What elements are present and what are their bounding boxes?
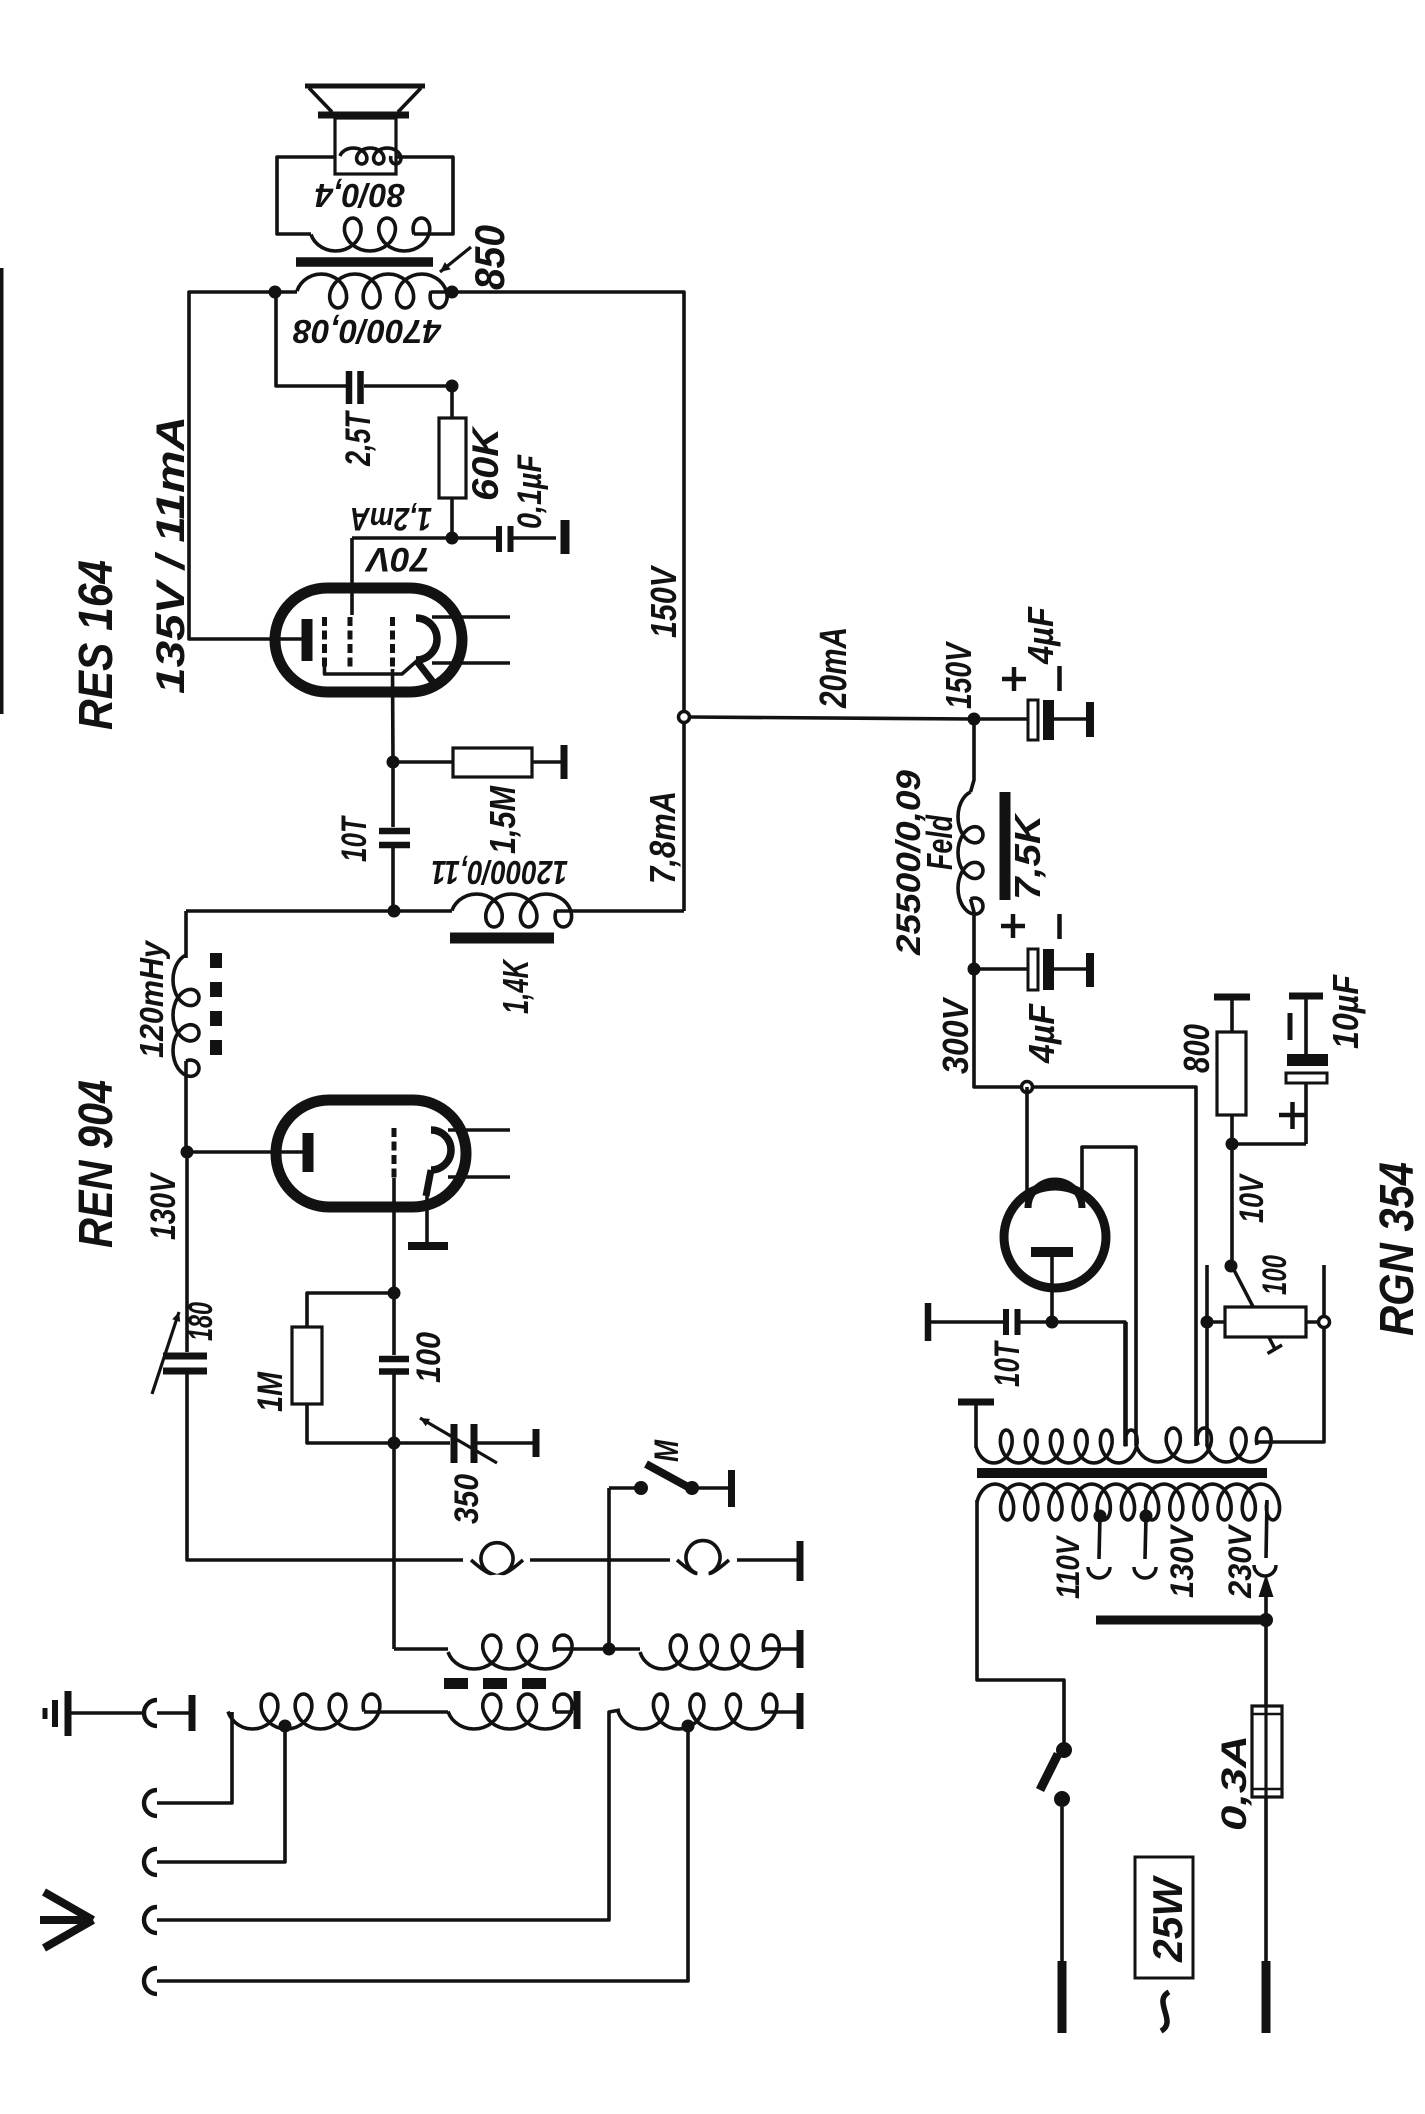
RGN 354 anode	[1031, 1247, 1073, 1257]
svg-text:25W: 25W	[1144, 1875, 1191, 1963]
wire winding3 right	[1257, 1265, 1324, 1442]
wire filament left	[1025, 1087, 1029, 1206]
label 150V b	[938, 641, 979, 709]
coil row2 a	[448, 1635, 572, 1669]
wire 10T to node	[391, 845, 395, 911]
speaker voice coil	[340, 148, 401, 164]
svg-text:350: 350	[448, 1474, 486, 1524]
label 2,5T	[339, 410, 378, 467]
label mains tilde	[1161, 1992, 1169, 2031]
svg-text:M: M	[648, 1439, 686, 1462]
node coupling	[388, 905, 401, 918]
svg-text:130V: 130V	[1164, 1523, 1200, 1598]
plug pin right	[1262, 1961, 1271, 2033]
wire row2 left	[394, 1647, 448, 1651]
loudspeaker	[305, 86, 425, 174]
svg-text:4µF: 4µF	[1020, 606, 1061, 665]
capacitor C 4uF a	[974, 700, 1090, 740]
REN 904 cathode stub	[408, 1196, 448, 1246]
wire coil row3 mid	[364, 1710, 448, 1714]
label 4uF b	[1021, 1003, 1062, 1064]
wire 100 bottom	[392, 1372, 396, 1444]
selector arrow 230V	[1259, 1574, 1274, 1620]
svg-text:60K: 60K	[465, 426, 506, 501]
capacitor C 0,1uF	[499, 526, 511, 552]
wire choke to REN anode	[184, 1061, 188, 1152]
wire anode REN row	[186, 909, 452, 913]
svg-text:0,1µF: 0,1µF	[511, 454, 549, 529]
node rectifier filament	[1022, 1082, 1033, 1093]
stub switch M	[728, 1470, 735, 1507]
transformer winding 2	[1136, 1428, 1211, 1462]
wire row3b to stub	[764, 1710, 797, 1714]
transformer winding 3	[1207, 1428, 1271, 1462]
svg-text:130V: 130V	[144, 1172, 183, 1240]
RES 164 filament	[416, 618, 437, 682]
node REN grid	[388, 1287, 401, 1300]
wire field to 300V	[971, 899, 975, 969]
wire row2 to stub	[764, 1647, 797, 1651]
resistor R 60K	[439, 418, 466, 498]
label 110V	[1050, 1535, 1086, 1599]
label plus b	[1001, 914, 1025, 938]
label 1,4K	[495, 958, 536, 1014]
node REN anode	[181, 1146, 194, 1159]
svg-text:1,2mA: 1,2mA	[350, 501, 432, 537]
coil row3 b	[618, 1694, 777, 1729]
node anode	[1046, 1316, 1059, 1329]
capacitor C 10T b	[1006, 1309, 1052, 1335]
tube REN 904 envelope	[276, 1100, 466, 1207]
wire 300V run	[974, 969, 1196, 1446]
wire control grid RES	[391, 669, 395, 762]
capacitor C 10T	[379, 831, 410, 845]
node RES grid	[387, 756, 400, 769]
wire anode to winding	[1052, 1322, 1125, 1446]
label 80/0,4	[315, 177, 405, 214]
wire to field coil	[971, 719, 975, 792]
capacitor C 4uF b	[974, 949, 1090, 990]
wire grid rail down	[392, 1443, 396, 1649]
label 10T	[335, 815, 374, 862]
selector bar	[1096, 1616, 1266, 1625]
switch M	[609, 1464, 729, 1649]
svg-text:300V: 300V	[935, 996, 976, 1074]
svg-text:100: 100	[1256, 1255, 1294, 1295]
REN 904 anode	[303, 1133, 314, 1172]
stub 350	[533, 1429, 540, 1457]
svg-text:RGN 354: RGN 354	[1371, 1162, 1424, 1336]
antenna coil tap node	[279, 1720, 292, 1733]
REN 904 cathode	[426, 1130, 451, 1196]
label 1,2mA	[350, 501, 432, 537]
tube RGN 354 envelope	[1004, 1186, 1106, 1288]
wire fuse to plug	[1264, 1797, 1268, 1961]
jack 3	[144, 1849, 157, 1875]
node screen grid	[446, 532, 459, 545]
svg-text:70V: 70V	[364, 540, 430, 578]
label 60K	[465, 426, 506, 501]
node primary left	[269, 286, 282, 299]
REN 904 grid	[392, 1128, 397, 1178]
label 230V	[1222, 1523, 1258, 1599]
resistor R 1,5M	[393, 748, 561, 777]
wire 180 to bottom row	[187, 1371, 463, 1560]
label minus 10uF	[1288, 1013, 1293, 1040]
label 100 b	[1256, 1255, 1294, 1295]
stub row3 a	[574, 1691, 581, 1729]
choke core dashes	[210, 953, 222, 1059]
label 130V b	[1164, 1523, 1200, 1598]
label REN 904	[70, 1080, 123, 1248]
wire secondary loop	[277, 157, 453, 234]
svg-text:2,5T: 2,5T	[339, 410, 378, 467]
label 7,5K	[1007, 812, 1048, 900]
svg-text:10T: 10T	[335, 815, 374, 862]
label 4uF a	[1020, 606, 1061, 665]
coil row2 b	[640, 1635, 779, 1669]
tube RES 164 envelope	[275, 588, 462, 692]
output transformer core	[296, 257, 433, 267]
hook 230V	[1254, 1565, 1276, 1576]
wire jack3 to tap	[157, 1726, 285, 1862]
stub row3 b	[797, 1693, 804, 1729]
wire 60K bottom	[450, 498, 454, 538]
svg-text:135V / 11mA: 135V / 11mA	[149, 416, 193, 694]
transformer core 1,4K	[450, 933, 554, 944]
label 7,8mA	[642, 791, 683, 884]
antenna symbol	[40, 1892, 93, 1948]
wire primary right	[1266, 1500, 1267, 1558]
node rheostat left	[1201, 1316, 1214, 1329]
label 135V / 11mA	[149, 416, 193, 694]
svg-text:Feld: Feld	[919, 814, 960, 870]
node 300V	[968, 963, 981, 976]
trimmer capacitor 350	[454, 1424, 474, 1463]
label 12000/0,11	[431, 854, 568, 891]
label 1M	[251, 1371, 290, 1412]
svg-text:120mHy: 120mHy	[133, 939, 170, 1058]
label plus 10uF	[1279, 1102, 1306, 1129]
wire earth to jack	[71, 1711, 143, 1715]
field coil core 7,5K	[1000, 792, 1011, 900]
field coil Feld 25500/0,09	[958, 792, 983, 914]
stub jack1	[189, 1695, 196, 1731]
transformer primary 12000/0,11	[452, 894, 572, 927]
wire rail to choke	[184, 911, 188, 958]
wire winding3 left	[1205, 1265, 1209, 1446]
svg-text:800: 800	[1176, 1024, 1217, 1073]
label 25W	[1144, 1875, 1191, 1963]
wire 10T b stub	[928, 1320, 1003, 1324]
hook 110V	[1088, 1567, 1110, 1578]
fuse 0,3A	[1252, 1706, 1282, 1797]
label 180	[182, 1302, 220, 1341]
label RGN 354	[1371, 1162, 1424, 1336]
svg-text:850: 850	[466, 225, 513, 290]
wire 60K top	[450, 386, 454, 418]
wire row3 to stub	[555, 1710, 573, 1714]
wire switch to plug	[1060, 1807, 1064, 1961]
label 130V	[144, 1172, 183, 1240]
node 150V junction	[679, 712, 690, 723]
stub 10uF	[1289, 993, 1323, 1000]
svg-text:4µF: 4µF	[1021, 1003, 1062, 1064]
wire 10uF to node	[1232, 1142, 1306, 1146]
wire 135V rail	[189, 292, 307, 639]
capacitor C 2,5T	[349, 371, 361, 404]
label 350	[448, 1474, 486, 1524]
wire rail to 180	[185, 1152, 189, 1352]
resistor R 1M	[292, 1293, 394, 1443]
label 800	[1176, 1024, 1217, 1073]
plug pin left	[1058, 1961, 1067, 2033]
antenna coil	[228, 1694, 380, 1729]
RGN 354 filament	[1028, 1181, 1082, 1208]
svg-text:150V: 150V	[938, 641, 979, 709]
wire anode down	[1050, 1252, 1054, 1322]
RES 164 anode	[302, 619, 313, 661]
jack earth	[144, 1700, 157, 1726]
transformer primary	[977, 1484, 1280, 1520]
wire heater right lead	[1124, 1322, 1128, 1446]
capacitor C 100	[379, 1359, 409, 1372]
trimmer arrow 350	[420, 1418, 497, 1463]
primary tap 110V	[1094, 1510, 1107, 1560]
svg-text:1M: 1M	[251, 1371, 290, 1412]
jack 5	[144, 1968, 157, 1994]
label minus b	[1057, 914, 1062, 939]
svg-text:1,4K: 1,4K	[495, 958, 536, 1014]
wire REN anode	[187, 1150, 308, 1154]
wire 150V rail	[452, 292, 684, 911]
wire jack5 to tap6	[157, 1726, 688, 1981]
label 300V	[935, 996, 976, 1074]
svg-text:10µF: 10µF	[1325, 974, 1366, 1049]
coil row1 loop a	[471, 1543, 523, 1574]
label 10V	[1233, 1172, 1271, 1223]
stub heater winding	[958, 1402, 994, 1448]
svg-text:10T: 10T	[988, 1340, 1027, 1387]
label 150V	[643, 564, 684, 638]
coil row1 loop b	[677, 1541, 729, 1574]
RES 164 screen lead	[352, 538, 452, 615]
label 10uF	[1325, 974, 1366, 1049]
choke 120mHy	[173, 955, 199, 1076]
RES 164 grids	[325, 617, 393, 669]
wire grid cap 100	[392, 1293, 396, 1355]
svg-text:180: 180	[182, 1302, 220, 1341]
transformer heater winding	[976, 1430, 1137, 1463]
wire row1 to stub	[737, 1558, 797, 1562]
wire to 350	[394, 1441, 450, 1445]
svg-text:80/0,4: 80/0,4	[315, 177, 405, 214]
svg-text:230V: 230V	[1222, 1523, 1258, 1599]
wire 350 to stub	[474, 1441, 533, 1445]
label 1,5M	[482, 785, 523, 854]
wire 12000 to rail	[556, 909, 684, 913]
wire rheostat leads	[1207, 1320, 1324, 1324]
node row2	[603, 1643, 616, 1656]
node 2,5T right	[446, 380, 459, 393]
wire row1 mid	[530, 1558, 670, 1562]
jack antenna	[144, 1907, 157, 1933]
svg-text:10V: 10V	[1233, 1172, 1271, 1223]
label RES 164	[70, 560, 123, 730]
wire 20mA	[690, 717, 975, 719]
wire grid to 10T	[391, 762, 395, 827]
wire primary leads	[275, 290, 452, 294]
wire 10V	[1230, 1144, 1234, 1266]
resistor R 800	[1217, 997, 1246, 1144]
coil row3 b tap node	[682, 1720, 695, 1733]
output transformer primary 4700/0,08	[297, 274, 447, 308]
node grid bottom	[388, 1437, 401, 1450]
label 10T b	[988, 1340, 1027, 1387]
wire selector to fuse	[1264, 1620, 1268, 1706]
wire row2 mid	[555, 1647, 640, 1651]
capacitor C 10uF	[1286, 996, 1328, 1144]
transformer core	[977, 1468, 1267, 1478]
wire to 0,1uF	[452, 536, 496, 540]
rheostat arrow	[1234, 1270, 1282, 1354]
label 100	[410, 1332, 448, 1383]
label 20mA	[813, 627, 855, 709]
earth symbol	[45, 1691, 68, 1736]
power switch	[1040, 1742, 1072, 1807]
wire REN grid	[392, 1178, 396, 1293]
label 25500/0,09	[890, 770, 928, 956]
rheostat R 100	[1225, 1307, 1306, 1337]
svg-text:REN 904: REN 904	[70, 1080, 123, 1248]
svg-text:RES 164: RES 164	[70, 560, 123, 730]
svg-text:0,3A: 0,3A	[1215, 1735, 1254, 1831]
wire jack2 to coil	[157, 1712, 232, 1803]
svg-text:20mA: 20mA	[813, 627, 855, 709]
box 25W	[1135, 1857, 1193, 1978]
svg-text:7,5K: 7,5K	[1007, 812, 1048, 900]
jack 2	[144, 1790, 157, 1816]
svg-text:4700/0,08: 4700/0,08	[292, 313, 442, 350]
trimmer arrow 180	[152, 1312, 180, 1394]
svg-text:7,8mA: 7,8mA	[642, 791, 683, 884]
node 150V cap	[968, 713, 981, 726]
label 120mHy	[133, 939, 170, 1058]
node selector	[1259, 1613, 1273, 1627]
wire jack1 to stub	[157, 1711, 189, 1715]
REN 904 filament leads	[448, 1130, 510, 1177]
wire 0,1uF to stub	[513, 536, 556, 540]
primary tap 130V	[1140, 1510, 1153, 1560]
wire antenna to coil6	[157, 1710, 620, 1920]
node 10V top	[1226, 1138, 1239, 1151]
stub row1	[797, 1541, 804, 1581]
label 70V	[364, 540, 430, 578]
label 4700/0,08	[292, 313, 442, 350]
label plus a	[1002, 667, 1026, 691]
svg-text:1,5M: 1,5M	[482, 785, 523, 854]
stub 10T b	[925, 1303, 932, 1341]
svg-text:110V: 110V	[1050, 1535, 1086, 1599]
label minus a	[1057, 666, 1062, 691]
node rheostat right	[1319, 1317, 1330, 1328]
wire filament right	[1082, 1147, 1136, 1446]
svg-text:12000/0,11: 12000/0,11	[431, 854, 568, 891]
wire to capacitor 2,5T	[276, 292, 452, 386]
stub 1,5M	[561, 745, 568, 779]
stub row2	[797, 1630, 804, 1668]
wire primary left to switch	[977, 1500, 1064, 1743]
label M	[648, 1439, 686, 1462]
output transformer secondary 80/0,4	[311, 218, 430, 251]
scan edge artifact	[0, 268, 4, 714]
label 850 with arrow	[440, 225, 513, 290]
node primary right	[446, 286, 459, 299]
svg-text:100: 100	[410, 1332, 448, 1383]
label 0,3A	[1215, 1735, 1254, 1831]
RES 164 filament leads	[432, 617, 510, 663]
stub 800	[1214, 994, 1250, 1001]
svg-text:150V: 150V	[643, 564, 684, 638]
RES 164 suppressor tie	[325, 659, 420, 674]
core dashes row2	[444, 1678, 554, 1689]
coil row3 a	[448, 1694, 572, 1729]
label 0,1uF	[511, 454, 549, 529]
node wiper	[1225, 1260, 1238, 1273]
trimmer capacitor 180	[163, 1356, 207, 1371]
label Feld	[919, 814, 960, 870]
hook 130V	[1134, 1567, 1156, 1578]
chassis stub	[561, 520, 570, 554]
